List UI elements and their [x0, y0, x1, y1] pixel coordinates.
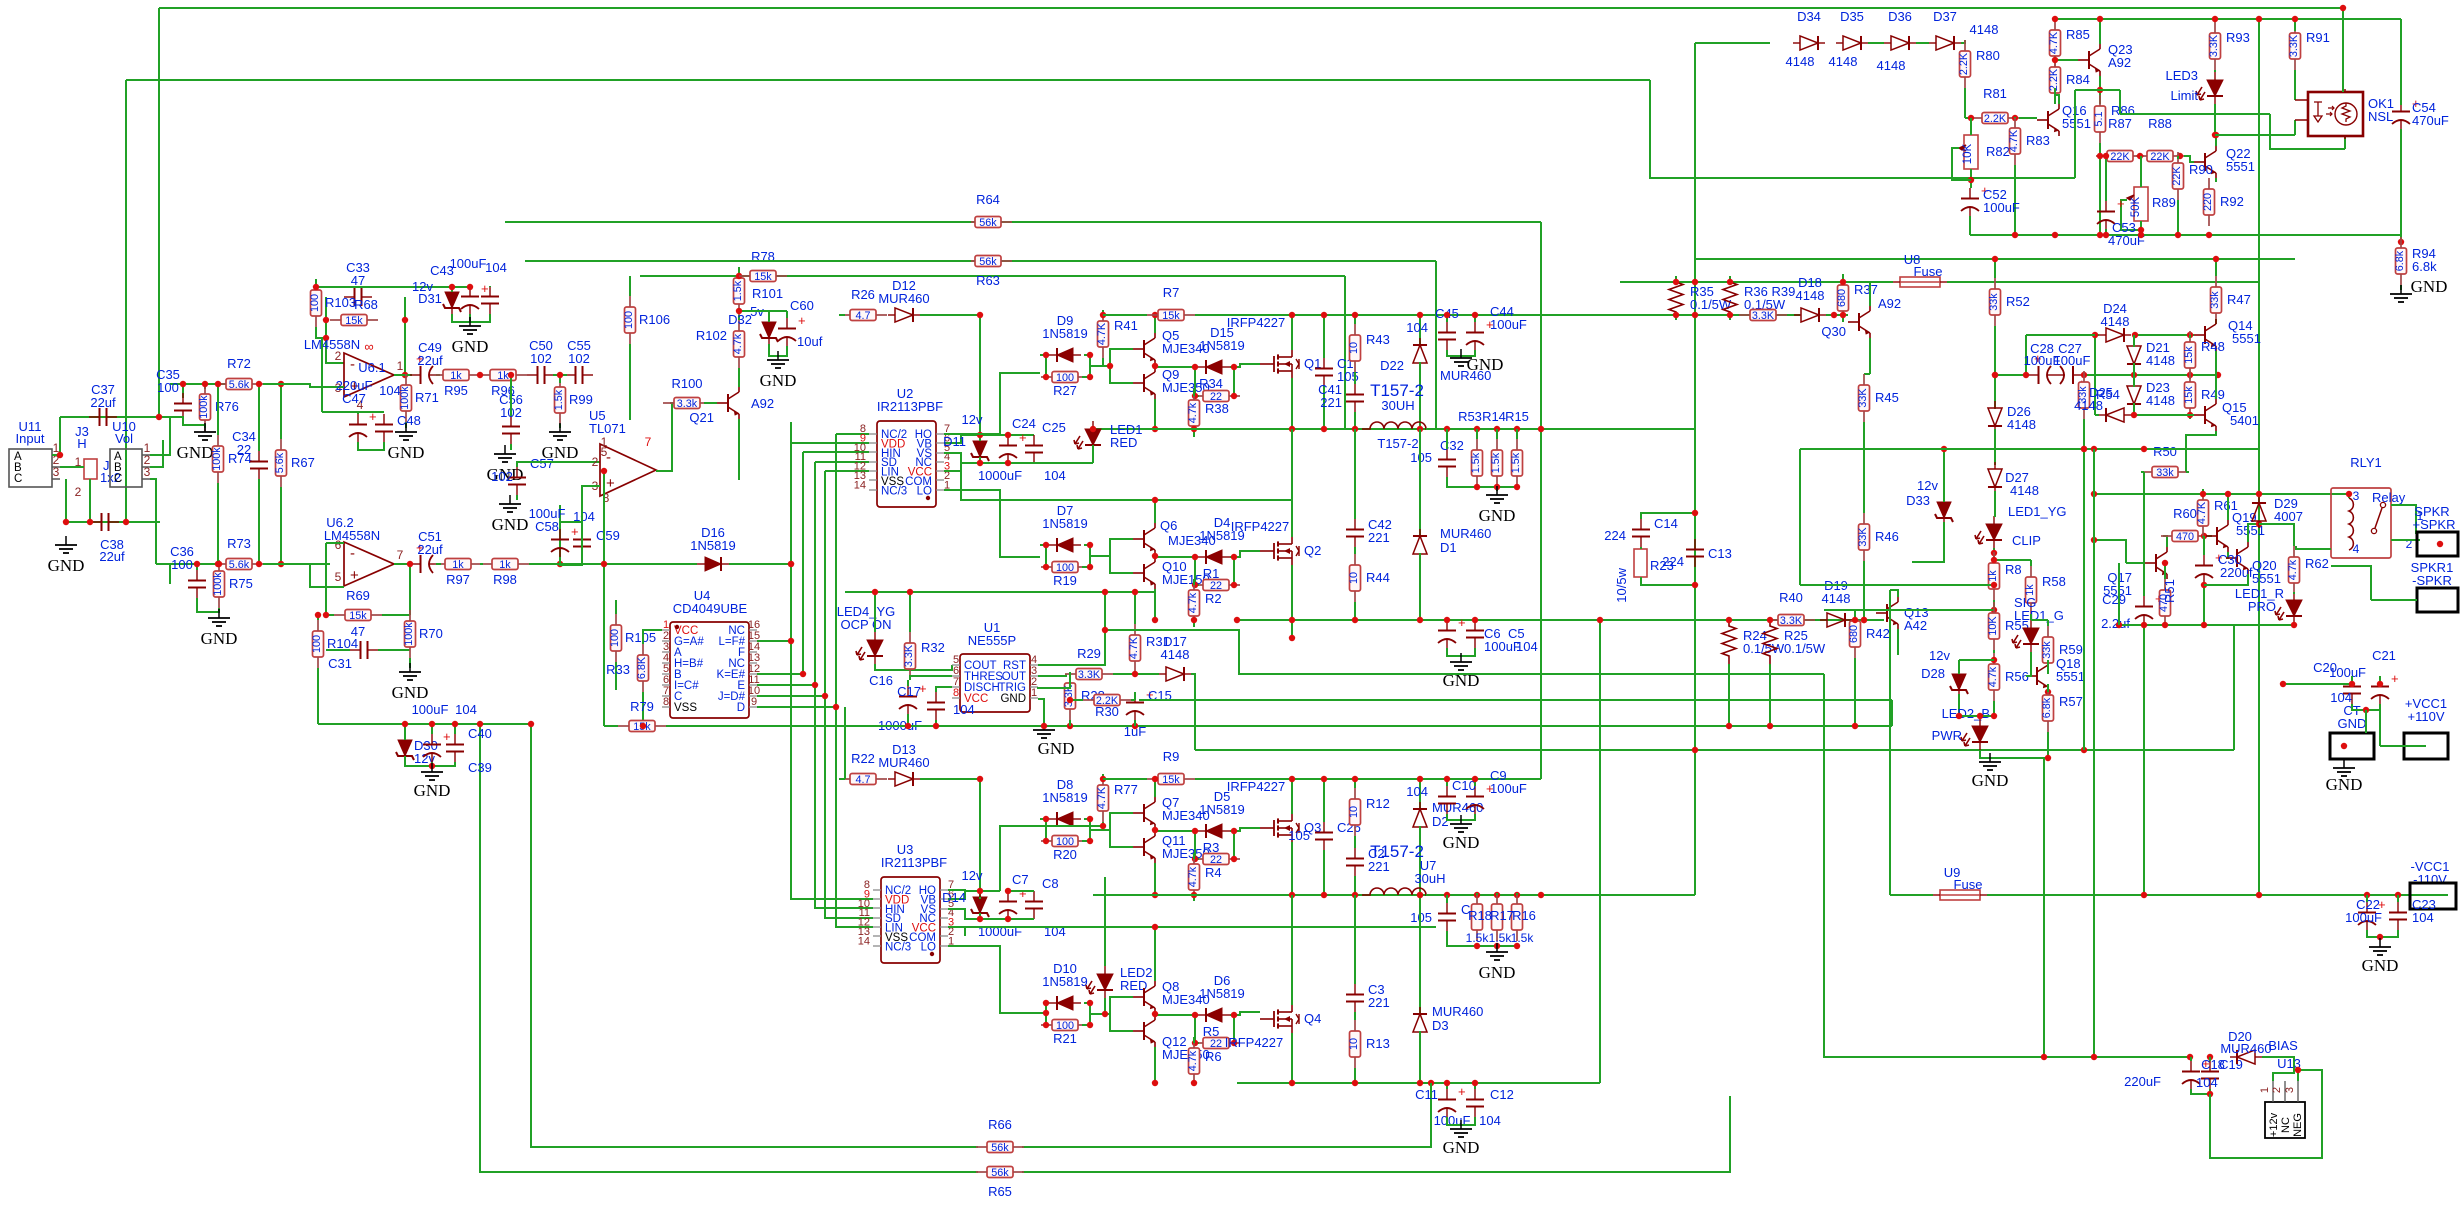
resistor R69 — [334, 588, 382, 622]
wire — [629, 276, 631, 296]
wire spkr1 — [2371, 599, 2417, 601]
wire — [1082, 355, 1090, 377]
ground GND PWR — [1972, 753, 2009, 790]
wire top rail B — [126, 79, 1650, 81]
wire — [1419, 895, 1421, 1015]
resistor R28 — [1063, 672, 1076, 720]
svg-text:4.7K: 4.7K — [1128, 636, 1140, 659]
svg-text:R27: R27 — [1053, 383, 1077, 398]
junction — [2097, 153, 2103, 159]
svg-text:R92: R92 — [2220, 194, 2244, 209]
svg-text:5.6k: 5.6k — [229, 379, 250, 391]
resistor R16 — [1512, 893, 1523, 941]
svg-text:R44: R44 — [1366, 570, 1390, 585]
wire — [1082, 1003, 1090, 1025]
svg-text:100k: 100k — [212, 572, 224, 596]
svg-text:MUR460: MUR460 — [2220, 1041, 2271, 1056]
resistor R24 — [1722, 620, 1736, 664]
svg-text:A42: A42 — [1904, 618, 1927, 633]
svg-text:10/5w: 10/5w — [1614, 567, 1629, 602]
wire — [2293, 592, 2295, 594]
capacitor C48 — [375, 414, 393, 442]
wire relay contact — [2391, 505, 2416, 534]
diode D19 — [1820, 613, 1852, 627]
junction — [1234, 617, 1295, 641]
wire — [1460, 669, 1462, 671]
capacitor C35 — [174, 393, 192, 421]
wire — [1354, 1068, 1356, 1083]
wire — [452, 314, 490, 322]
junction — [1289, 312, 1295, 318]
wire — [65, 479, 67, 522]
wire — [1993, 701, 1995, 716]
svg-text:6.8k: 6.8k — [2394, 250, 2406, 271]
junction — [2340, 5, 2346, 11]
junction — [2137, 153, 2143, 159]
wire — [1180, 366, 1195, 368]
ground GND R71 — [388, 423, 425, 462]
svg-text:+: + — [1458, 1084, 1466, 1099]
wire — [1103, 358, 1110, 366]
resistor R29 — [1065, 646, 1113, 681]
svg-text:22: 22 — [237, 442, 251, 457]
junction — [1152, 617, 1158, 623]
svg-text:105: 105 — [1410, 910, 1432, 925]
resistor R79 — [618, 699, 666, 733]
svg-text:D32: D32 — [728, 312, 752, 327]
svg-text:R46: R46 — [1875, 529, 1899, 544]
svg-text:R69: R69 — [346, 588, 370, 603]
capacitor C43 — [461, 281, 489, 314]
wire — [790, 422, 792, 443]
svg-text:GND: GND — [201, 629, 238, 648]
svg-text:2: 2 — [2271, 1087, 2283, 1093]
svg-text:NSL: NSL — [2368, 109, 2393, 124]
wire — [2331, 566, 2371, 600]
resistor R87 — [2096, 116, 2144, 163]
wire — [409, 658, 411, 668]
wire — [1195, 557, 1199, 585]
wire — [1090, 1013, 1110, 1015]
svg-text:R4: R4 — [1205, 865, 1222, 880]
svg-text:GND: GND — [2362, 956, 2399, 975]
wire lower power rail — [1237, 778, 1541, 780]
junction — [1192, 828, 1237, 862]
wire rail ext lower — [1093, 894, 1237, 896]
resistor R100 — [663, 376, 711, 410]
ground GND C9 — [1443, 815, 1480, 852]
junction — [1968, 177, 1974, 183]
wire bus mid4 — [1195, 749, 2234, 751]
wire — [451, 287, 453, 292]
wire main +vert — [1540, 222, 1542, 779]
transistor Q14 — [2194, 319, 2216, 351]
junction — [2212, 132, 2218, 138]
transistor Q20 — [2226, 542, 2248, 574]
junction — [1992, 372, 2221, 378]
svg-text:4148: 4148 — [2146, 353, 2175, 368]
wire TRIG — [1038, 672, 1070, 688]
wire C38 row — [66, 521, 160, 523]
svg-text:4148: 4148 — [2101, 314, 2130, 329]
wire — [2400, 101, 2402, 105]
resistor R13 — [1348, 1020, 1361, 1068]
junction — [1152, 426, 1158, 432]
wire upper L rail b — [1541, 428, 1695, 430]
wire — [738, 419, 740, 480]
svg-text:R82: R82 — [1986, 144, 2010, 159]
svg-text:4.7k: 4.7k — [1987, 666, 1999, 687]
svg-text:Q4: Q4 — [1304, 1011, 1321, 1026]
svg-text:Fuse: Fuse — [1954, 877, 1983, 892]
wire — [739, 310, 787, 312]
svg-text:2: 2 — [335, 349, 342, 363]
port CT GND — [2330, 733, 2374, 759]
diode D5 — [1198, 824, 1230, 838]
resistor R106 — [623, 296, 670, 344]
wire — [2177, 156, 2179, 159]
wire — [436, 563, 441, 565]
resistor R58 — [2024, 566, 2037, 614]
svg-text:MUR460: MUR460 — [878, 291, 929, 306]
resistor R72 — [215, 356, 263, 391]
junction — [2398, 239, 2404, 245]
capacitor C28 — [2028, 351, 2056, 384]
pins U10 — [142, 455, 150, 479]
resistor R85 — [2048, 19, 2061, 67]
svg-text:100: 100 — [1056, 372, 1074, 384]
svg-text:-: - — [350, 356, 355, 373]
wire — [1641, 577, 1695, 585]
resistor R62 — [2287, 546, 2300, 594]
wire — [1863, 422, 1865, 513]
svg-text:1.5k: 1.5k — [1510, 452, 1522, 473]
wire — [1640, 547, 1642, 549]
wire — [642, 692, 644, 726]
wire — [1993, 650, 1995, 653]
junction — [1992, 256, 1998, 262]
capacitor C56 — [502, 416, 520, 444]
wire — [1447, 477, 1517, 487]
junction — [1067, 697, 1073, 703]
diode D21 — [2127, 339, 2141, 371]
svg-text:PWR: PWR — [1932, 728, 1962, 743]
svg-text:Q6: Q6 — [1160, 518, 1177, 533]
svg-text:C32: C32 — [1440, 438, 1464, 453]
svg-text:3.3K: 3.3K — [1078, 669, 1101, 681]
svg-text:C11: C11 — [1415, 1087, 1438, 1102]
junction — [1289, 617, 1295, 623]
svg-text:D14: D14 — [942, 890, 966, 905]
svg-text:1N5819: 1N5819 — [1042, 974, 1088, 989]
wire — [436, 374, 440, 376]
wire — [258, 384, 260, 451]
op-amp U5 — [600, 444, 656, 496]
svg-text:1N5819: 1N5819 — [1199, 338, 1245, 353]
junction — [977, 888, 1011, 922]
svg-text:MUR460: MUR460 — [878, 755, 929, 770]
junction — [2103, 232, 2109, 238]
wire — [1474, 779, 1476, 786]
svg-text:D31: D31 — [418, 291, 442, 306]
wire to D34 — [1695, 42, 1770, 44]
wire — [196, 564, 198, 570]
svg-text:5551: 5551 — [2062, 116, 2091, 131]
wire — [378, 649, 410, 651]
junction — [1692, 510, 1698, 516]
svg-text:R56: R56 — [2005, 669, 2029, 684]
wire — [1854, 610, 1856, 620]
capacitor C55 — [565, 366, 593, 384]
wire — [431, 762, 433, 766]
wire — [1230, 556, 1234, 558]
wire — [169, 564, 171, 584]
svg-text:10: 10 — [1348, 1038, 1360, 1050]
wire — [2026, 334, 2095, 336]
wire LO — [944, 490, 1040, 557]
svg-text:15k: 15k — [349, 610, 367, 622]
svg-text:102: 102 — [491, 469, 513, 484]
junction — [1152, 1080, 1158, 1086]
svg-text:GND: GND — [1479, 963, 1516, 982]
wire — [1082, 545, 1090, 567]
diode D34 — [1793, 36, 1825, 50]
ground GND input — [48, 536, 85, 575]
diode D24 — [2099, 328, 2131, 342]
wire — [979, 435, 981, 441]
resistor R63 — [964, 256, 1012, 289]
dot U3 pin1 — [930, 952, 934, 956]
svg-text:2: 2 — [75, 485, 82, 499]
wire — [326, 649, 350, 651]
diode D3 — [1413, 1007, 1427, 1039]
svg-text:104: 104 — [1406, 784, 1428, 799]
junction — [1941, 446, 1947, 452]
junction — [2103, 153, 2109, 159]
svg-text:4148: 4148 — [2074, 398, 2103, 413]
wire — [2189, 415, 2191, 419]
svg-text:R83: R83 — [2026, 133, 2050, 148]
wire — [1110, 556, 1133, 573]
svg-text:Q21: Q21 — [689, 410, 714, 425]
svg-text:R91: R91 — [2306, 30, 2330, 45]
wire — [159, 7, 2343, 9]
svg-text:100: 100 — [311, 635, 323, 653]
wire — [1729, 276, 1731, 282]
wire rails tie — [1599, 620, 1601, 1083]
svg-text:GND: GND — [1467, 355, 1504, 374]
svg-text:R43: R43 — [1366, 332, 1390, 347]
wire — [217, 384, 219, 435]
resistor R27 — [1041, 372, 1089, 384]
transistor Q9 — [1133, 367, 1155, 399]
wire — [979, 457, 981, 463]
resistor R74 — [211, 435, 252, 483]
svg-text:1.5k: 1.5k — [1490, 452, 1502, 473]
wire — [1154, 500, 1156, 523]
wire — [2186, 471, 2189, 473]
svg-text:104: 104 — [1406, 320, 1428, 335]
wire OCP row — [845, 591, 1155, 593]
op-amp U6.2 — [344, 542, 394, 586]
wire — [1154, 315, 1156, 333]
svg-text:R85: R85 — [2066, 27, 2090, 42]
resistor R44 — [1348, 554, 1361, 602]
wire — [1447, 1117, 1475, 1125]
svg-text:56k: 56k — [979, 256, 997, 268]
svg-text:GND: GND — [388, 443, 425, 462]
wire — [1291, 315, 1293, 350]
wire d30 row — [318, 723, 531, 725]
wire — [1046, 355, 1048, 377]
capacitor C26 — [1315, 822, 1333, 850]
junction — [1192, 364, 1237, 399]
svg-text:221: 221 — [1368, 859, 1390, 874]
junction — [2097, 16, 2103, 22]
svg-text:1: 1 — [2259, 1087, 2271, 1093]
wire — [2190, 1057, 2192, 1061]
wire — [1728, 619, 1730, 621]
svg-text:100: 100 — [1056, 1020, 1074, 1032]
svg-text:680: 680 — [1836, 289, 1848, 307]
diode D28 — [1950, 666, 1968, 698]
junction — [1289, 776, 1295, 782]
capacitor C24 — [999, 430, 1027, 463]
resistor R5 — [1192, 1038, 1240, 1050]
svg-text:4.7K: 4.7K — [2048, 31, 2060, 54]
wire — [1447, 648, 1475, 656]
wire — [2030, 560, 2032, 566]
resistor R102 — [732, 320, 745, 368]
capacitor C2 — [1346, 848, 1364, 876]
junction — [1417, 617, 1423, 623]
transistor Q5 — [1133, 333, 1155, 365]
wire to Q4 gate — [1234, 1012, 1260, 1015]
wire — [1233, 557, 1234, 585]
IC U2 — [877, 421, 936, 507]
svg-text:22K: 22K — [2150, 151, 2170, 163]
wire — [2204, 574, 2248, 585]
wire — [1890, 590, 1898, 597]
junction — [402, 721, 534, 727]
wire — [2367, 930, 2398, 937]
wire — [2131, 414, 2194, 416]
junction — [1444, 776, 1478, 782]
junction — [1152, 1011, 1158, 1017]
svg-text:4148: 4148 — [1786, 54, 1815, 69]
wire — [909, 592, 911, 632]
ground GND CT — [2326, 759, 2363, 794]
wire — [280, 384, 282, 439]
svg-text:R19: R19 — [1053, 573, 1077, 588]
wire lower L rail — [1237, 894, 1695, 896]
resistor R86 — [2093, 95, 2106, 143]
svg-text:D11: D11 — [943, 434, 966, 449]
junction — [2213, 256, 2219, 262]
wire — [1104, 998, 1106, 1014]
resistor R48 — [2183, 331, 2196, 379]
wire — [2164, 563, 2166, 579]
ground GND C11 — [1443, 1120, 1480, 1157]
svg-text:5551: 5551 — [2226, 159, 2255, 174]
junction — [1352, 892, 1358, 898]
svg-text:14: 14 — [858, 935, 870, 947]
junction — [194, 561, 222, 567]
wire — [2143, 472, 2145, 596]
svg-text:LO: LO — [917, 485, 932, 497]
wire — [382, 614, 410, 616]
wire — [317, 615, 319, 620]
wire — [2283, 683, 2352, 685]
wire — [316, 327, 326, 338]
wire RST up — [1038, 592, 1105, 665]
wire — [1103, 778, 1147, 780]
wire — [2294, 120, 2296, 135]
svg-text:4148: 4148 — [1970, 22, 1999, 37]
wire — [615, 662, 617, 690]
resistor R7 — [1147, 285, 1195, 322]
capacitor C5 — [1466, 620, 1484, 648]
svg-text:MUR460: MUR460 — [1432, 1004, 1483, 1019]
svg-text:R67: R67 — [291, 455, 315, 470]
wire R64 row — [505, 221, 1541, 223]
wire — [936, 687, 952, 692]
capacitor C31 — [350, 641, 378, 659]
diode D37 — [1929, 36, 1961, 50]
resistor R54 — [2077, 371, 2090, 419]
wire — [1007, 462, 1009, 464]
junction — [2213, 132, 2219, 138]
svg-text:1.5k: 1.5k — [732, 280, 744, 301]
wire — [2143, 592, 2145, 596]
junction — [2162, 560, 2168, 566]
wire — [2209, 1057, 2211, 1061]
svg-text:104: 104 — [455, 702, 477, 717]
wire — [1110, 366, 1133, 383]
svg-text:1N5819: 1N5819 — [690, 538, 736, 553]
junction — [323, 317, 408, 378]
svg-text:R95: R95 — [444, 383, 468, 398]
wire — [560, 557, 582, 565]
svg-text:-: - — [350, 545, 355, 562]
junction — [1102, 589, 1108, 595]
wire — [1959, 659, 1994, 661]
wire VB row U3 — [948, 891, 965, 899]
resistor R40b — [1739, 310, 1787, 322]
wire upper power rail — [1237, 314, 1800, 316]
junction — [2092, 332, 2193, 338]
svg-text:224: 224 — [1604, 528, 1626, 543]
svg-text:T157-2: T157-2 — [1370, 842, 1424, 861]
capacitor C27 — [2056, 366, 2086, 391]
pins U3 — [873, 890, 948, 946]
resistor R40 — [1767, 590, 1815, 627]
svg-text:+110V: +110V — [2408, 709, 2445, 724]
resistor R9 — [1147, 749, 1195, 786]
wire — [156, 563, 215, 565]
svg-text:R15: R15 — [1505, 409, 1529, 424]
wire — [1012, 221, 1541, 223]
wire — [2141, 471, 2144, 473]
capacitor C7 — [999, 886, 1027, 919]
junction — [1090, 426, 1096, 432]
wire — [629, 344, 631, 420]
wire — [1344, 276, 1346, 429]
svg-text:R5: R5 — [1203, 1024, 1220, 1039]
wire pwr to bias — [2043, 758, 2045, 1057]
transistor Q8 — [1133, 981, 1155, 1013]
junction — [905, 723, 1138, 729]
